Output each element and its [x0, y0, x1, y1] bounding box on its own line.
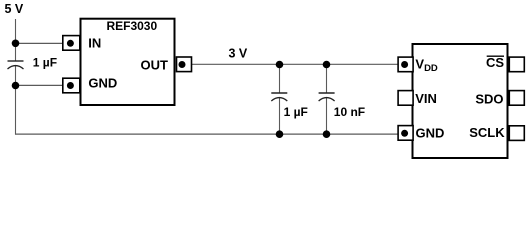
svg-text:1 µF: 1 µF [33, 56, 57, 70]
U2 pin VDD box [398, 57, 413, 72]
U1 pin OUT dot [179, 61, 186, 68]
junction C3 top [323, 61, 331, 69]
U2 pin CS box [509, 57, 524, 72]
svg-text:3 V: 3 V [229, 47, 248, 61]
svg-text:SDO: SDO [475, 92, 503, 107]
capacitor C1 1uF (input) [8, 61, 24, 69]
wire 5V vertical rail (x=15.5, above C1) [15, 19, 17, 61]
wire branch C2 lower [279, 98, 281, 135]
svg-text:10 nF: 10 nF [334, 105, 365, 119]
svg-text:GND: GND [88, 76, 117, 91]
IC U2 (DAC) body [413, 44, 508, 158]
junction C2 bottom [276, 130, 284, 138]
junction at 5V/IN [12, 40, 20, 48]
U1 pin GND dot [67, 82, 74, 89]
svg-text:VIN: VIN [415, 91, 437, 106]
wire branch C3 lower [326, 98, 328, 135]
junction C3 bottom [323, 130, 331, 138]
svg-text:REF3030: REF3030 [106, 19, 157, 33]
wire 5V to IN pin [16, 42, 64, 44]
U2 pin VDD dot [401, 61, 408, 68]
U2 pin GND dot [401, 130, 408, 137]
wire 3V rail OUT to VDD [192, 63, 398, 65]
junction at GND/C1 [12, 82, 20, 90]
U2 pin SDO box [509, 91, 524, 106]
svg-text:1 µF: 1 µF [284, 105, 308, 119]
wire vertical rail below C1 down to ground rail [15, 66, 17, 135]
U1 pin IN box [63, 36, 80, 51]
U1 pin IN dot [67, 40, 74, 47]
svg-text:5 V: 5 V [5, 2, 24, 16]
op-amp U1 REF3030 body [81, 19, 175, 105]
capacitor C3 10nF [319, 93, 335, 101]
U2 pin GND box [398, 126, 413, 141]
wire bottom ground rail [15, 133, 398, 135]
wire GND of REF3030 to rail [16, 84, 64, 86]
capacitor C2 1uF (output) [271, 93, 287, 101]
U1 pin OUT box [177, 57, 192, 72]
wire branch C2 upper [279, 65, 281, 94]
U2 pin VIN box [398, 91, 413, 106]
svg-text:CS: CS [486, 55, 504, 70]
junction C2 top [276, 61, 284, 69]
wire branch C3 upper [326, 65, 328, 94]
U2 pin CS overline [487, 55, 504, 57]
U1 pin GND box [63, 78, 80, 93]
svg-text:IN: IN [88, 36, 101, 51]
U2 pin SCLK box [509, 126, 524, 141]
svg-text:OUT: OUT [141, 58, 169, 73]
svg-text:GND: GND [416, 126, 445, 141]
svg-text:SCLK: SCLK [469, 125, 505, 140]
